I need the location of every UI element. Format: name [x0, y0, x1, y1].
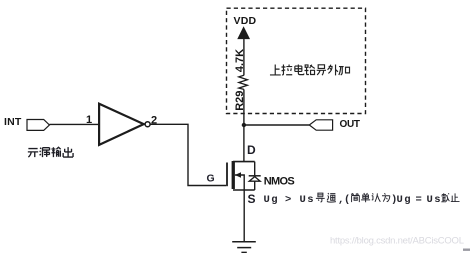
svg-text:Ug: Ug [264, 194, 279, 206]
gate bar [226, 163, 228, 187]
svg-text:S: S [248, 192, 256, 206]
inverter U1 [99, 104, 144, 145]
resistor R29 zigzag [239, 75, 248, 89]
transistor Q1 NMOS [227, 161, 261, 190]
wire source to ground [243, 190, 245, 242]
note Ug Us line [264, 193, 460, 206]
wire junction to OUT [244, 124, 309, 126]
wire junction to drain [243, 125, 245, 162]
svg-text:G: G [207, 173, 215, 185]
svg-text:>: > [285, 194, 291, 206]
svg-text:Us: Us [300, 194, 315, 206]
svg-text:1: 1 [86, 114, 92, 126]
source horizontal [233, 189, 255, 191]
svg-text:(: ( [344, 194, 350, 206]
svg-text:INT: INT [4, 116, 22, 128]
svg-text:=: = [416, 194, 422, 206]
svg-text:OUT: OUT [340, 119, 360, 130]
watermark corner speck [463, 249, 470, 251]
wire inverter output to gate [150, 124, 226, 185]
wire VDD to resistor [243, 39, 245, 76]
junction node [242, 123, 246, 127]
wire INT to inverter [49, 123, 99, 125]
svg-text:4.7K: 4.7K [234, 49, 246, 72]
bulk arrowhead [235, 172, 241, 178]
ground [232, 242, 256, 253]
inverter bubble [145, 122, 150, 127]
drain horizontal [233, 161, 255, 163]
port INT [4, 116, 49, 130]
body diode cathode bar [249, 175, 261, 177]
svg-text:https://blog.csdn.net/ABCisCOO: https://blog.csdn.net/ABCisCOOL [330, 236, 464, 247]
dashed box pull-up [227, 8, 366, 113]
port OUT [309, 120, 332, 130]
svg-text:VDD: VDD [234, 15, 257, 27]
svg-text:Ug: Ug [397, 194, 412, 206]
svg-text:D: D [247, 143, 256, 157]
bulk wire [235, 175, 244, 190]
label shangla (pull-up circuit added externally) [270, 65, 350, 76]
wire resistor to junction [243, 89, 245, 125]
channel bar [232, 161, 235, 189]
label kailou (open-drain output) [28, 147, 73, 157]
svg-text:Us: Us [427, 194, 442, 206]
body diode triangle [249, 177, 260, 182]
VDD power arrow [238, 27, 250, 39]
svg-text:NMOS: NMOS [264, 176, 295, 188]
body diode branch wire [254, 162, 256, 176]
